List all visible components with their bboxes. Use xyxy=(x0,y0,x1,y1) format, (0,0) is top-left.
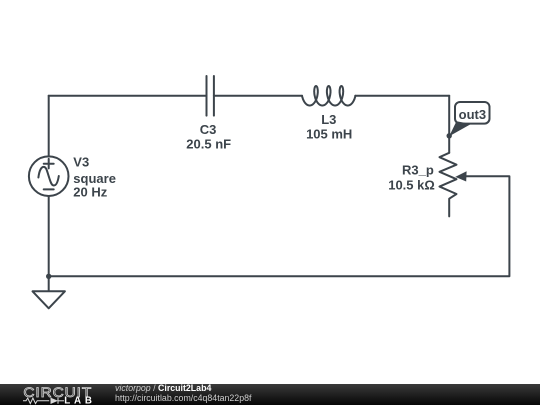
svg-text:C3: C3 xyxy=(200,122,217,137)
svg-text:L3: L3 xyxy=(321,112,336,127)
svg-text:R3_p: R3_p xyxy=(402,162,434,177)
svg-text:20.5 nF: 20.5 nF xyxy=(186,136,231,151)
svg-text:20 Hz: 20 Hz xyxy=(73,185,107,200)
svg-text:V3: V3 xyxy=(73,154,89,169)
svg-text:10.5 kΩ: 10.5 kΩ xyxy=(388,177,435,192)
svg-text:out3: out3 xyxy=(459,107,486,122)
svg-text:LAB: LAB xyxy=(64,395,96,405)
svg-text:105 mH: 105 mH xyxy=(306,126,352,141)
